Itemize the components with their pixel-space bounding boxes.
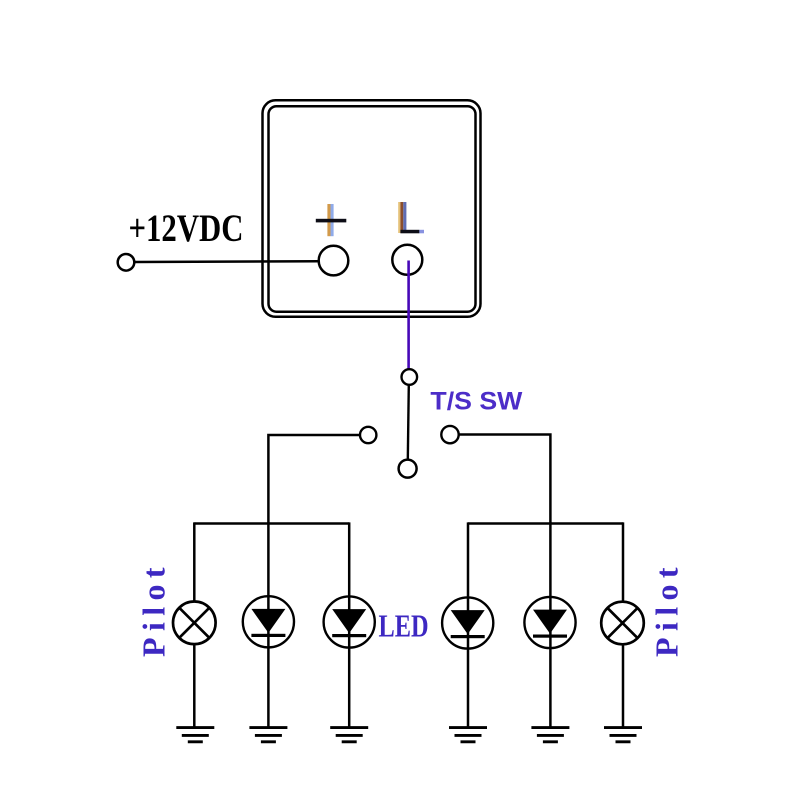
ground 2 (249, 728, 287, 742)
svg-text:LED: LED (379, 608, 429, 644)
terminal L (circle) (392, 245, 422, 275)
ground 4 (449, 728, 487, 742)
ground 6 (604, 728, 642, 742)
wire: pilot lamp 2 to ground 6 (622, 644, 625, 727)
T/S switch: bottom pole circle (399, 460, 417, 478)
wire: bus to pilot lamp 1 (193, 522, 196, 601)
wire: bus through LED2 to ground 3 (348, 522, 351, 727)
pilot lamp 1 (circle with X) (173, 602, 216, 645)
purple wire from L terminal to switch (407, 261, 410, 370)
wire: bus through LED3 to ground 4 (467, 522, 470, 727)
wire: left contact to left lamp bus (268, 435, 360, 524)
input terminal (open circle, +12VDC feed) (118, 254, 135, 271)
wire from input terminal to + terminal (135, 260, 320, 263)
svg-text:+12VDC: +12VDC (129, 207, 244, 250)
wire: bus through LED1 to ground 2 (267, 522, 270, 727)
wire: pilot lamp 1 to ground 1 (193, 644, 196, 727)
svg-text:T/S SW: T/S SW (430, 388, 522, 416)
ground 1 (176, 728, 214, 742)
LED4 (524, 597, 575, 648)
ground 3 (330, 728, 368, 742)
T/S switch: blade (408, 385, 409, 460)
T/S switch: right contact circle (441, 426, 458, 443)
L terminal label with color fringe (398, 202, 424, 233)
pilot lamp 2 (circle with X) (601, 602, 644, 645)
svg-text:Pilot: Pilot (649, 561, 685, 657)
LED1 (243, 596, 294, 647)
wire: right contact to right lamp bus (459, 435, 551, 525)
flasher relay box outer border (263, 100, 481, 316)
T/S switch: top pole circle (402, 369, 418, 385)
right lamp bus (468, 522, 623, 525)
wire: bus to pilot lamp 2 (622, 522, 625, 601)
LED3 (442, 597, 493, 648)
flasher relay box inner border (269, 106, 476, 312)
T/S switch: left contact circle (360, 427, 376, 443)
svg-text:Pilot: Pilot (136, 561, 172, 657)
wire: LED4 column to ground 5 (549, 522, 552, 727)
plus terminal label (+) with color fringe (316, 204, 347, 236)
ground 5 (531, 728, 569, 742)
terminal + (circle) (319, 246, 349, 276)
LED2 (324, 596, 375, 647)
left lamp bus (194, 522, 349, 525)
